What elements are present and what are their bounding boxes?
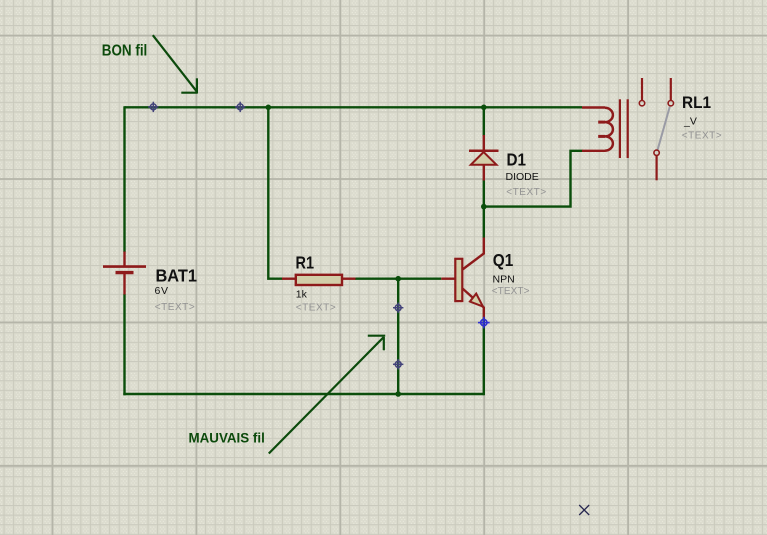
diode D1 <box>469 135 499 181</box>
wire battery bottom <box>123 294 125 395</box>
wire relay return <box>483 151 583 207</box>
wire top rail <box>125 106 583 108</box>
svg-text:BON fil: BON fil <box>102 43 148 60</box>
svg-text:<TEXT>: <TEXT> <box>492 286 530 297</box>
annotation arrow BON fil <box>153 35 198 93</box>
transistor Q1 <box>441 238 484 319</box>
marker pin-dot B (top rail right) <box>235 102 245 112</box>
node junction bottom rail <box>395 391 401 397</box>
marker cross bottom-right <box>579 505 589 515</box>
node junction base <box>395 276 401 282</box>
svg-text:1k: 1k <box>296 289 308 301</box>
wire diode top <box>483 106 485 136</box>
label RL1 <box>682 93 723 141</box>
relay RL1 core <box>620 99 628 158</box>
svg-text:Q1: Q1 <box>493 250 514 270</box>
annotation MAUVAIS fil <box>189 429 265 445</box>
marker blue origin (emitter) <box>478 317 490 329</box>
annotation BON fil <box>102 43 148 60</box>
wire base segment <box>355 278 441 280</box>
node junction diode top <box>481 105 487 111</box>
label R1 <box>296 253 337 314</box>
wire R1 feed <box>268 106 282 279</box>
svg-text:<TEXT>: <TEXT> <box>682 130 723 141</box>
svg-text:D1: D1 <box>507 149 527 169</box>
marker pin-dot A (top rail left) <box>148 102 158 112</box>
svg-text:RL1: RL1 <box>682 93 711 112</box>
annotation arrow MAUVAIS fil <box>269 336 385 454</box>
wire mauvais vertical <box>397 279 399 394</box>
label Q1 <box>492 250 530 297</box>
svg-text:6V: 6V <box>155 285 169 297</box>
label D1 <box>506 149 547 198</box>
wire emitter <box>483 318 485 395</box>
battery BAT1 <box>103 252 146 295</box>
wire battery top <box>123 106 125 252</box>
svg-text:MAUVAIS fil: MAUVAIS fil <box>189 429 265 445</box>
svg-text:NPN: NPN <box>493 274 515 286</box>
node junction top-left <box>266 105 272 111</box>
relay RL1 coil <box>582 108 613 151</box>
svg-text:_V: _V <box>683 116 697 128</box>
wire diode bottom <box>483 180 485 207</box>
resistor R1 <box>282 275 356 285</box>
node junction diode bottom <box>481 204 487 210</box>
wire collector <box>483 207 485 238</box>
marker pin-dot C (mauvais wire upper) <box>393 303 403 313</box>
svg-text:<TEXT>: <TEXT> <box>155 302 196 313</box>
svg-text:DIODE: DIODE <box>506 171 539 183</box>
svg-text:<TEXT>: <TEXT> <box>506 187 547 198</box>
svg-text:BAT1: BAT1 <box>156 266 198 286</box>
label BAT1 <box>155 266 198 314</box>
svg-text:<TEXT>: <TEXT> <box>296 303 337 314</box>
relay RL1 switch <box>639 78 673 180</box>
marker pin-dot D (mauvais wire lower) <box>393 359 403 369</box>
svg-text:R1: R1 <box>296 253 315 273</box>
wire bottom rail <box>123 393 484 395</box>
